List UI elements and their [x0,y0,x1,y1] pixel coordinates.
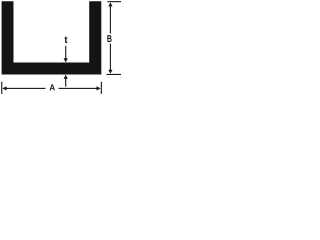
A dimension left extension tick [1,82,2,94]
A dimension line right segment with right arrow [59,86,101,90]
U-channel profile body [2,1,102,74]
B dimension bottom extension tick [107,74,122,75]
B label [107,35,111,42]
A dimension line left segment with left arrow [2,86,45,90]
A dimension right extension tick [101,82,102,94]
t dimension up arrow (points to bottom of web) [64,75,68,87]
B dimension line upper segment with up arrow [108,2,112,33]
B dimension top extension tick [107,1,121,2]
A label [50,84,55,90]
B dimension line lower segment with down arrow [108,44,112,74]
t label [64,36,67,43]
t dimension down arrow (points to top of web) [64,46,68,63]
